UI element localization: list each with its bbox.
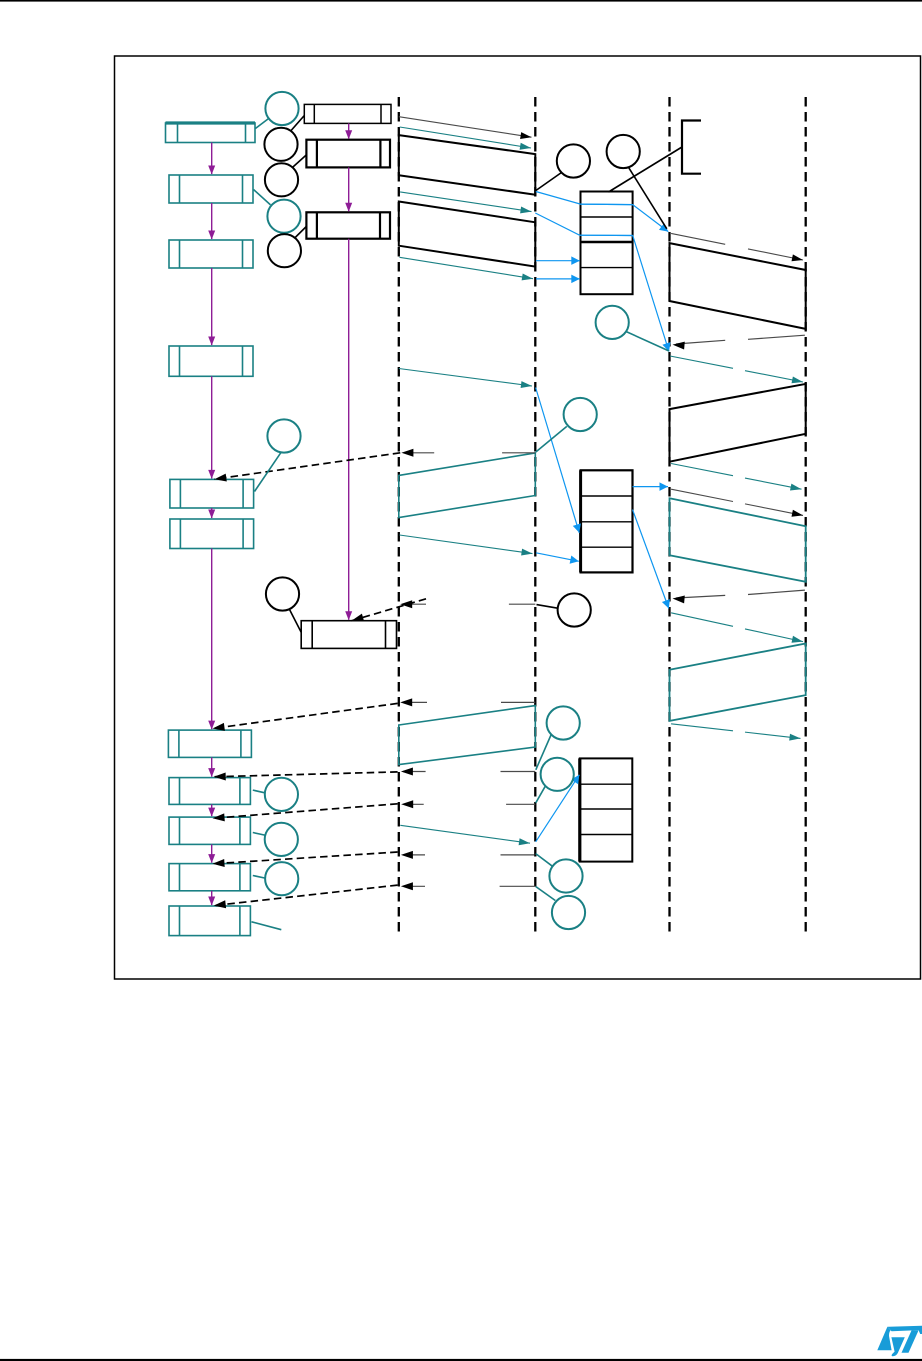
lifeline L1 xyxy=(398,97,400,936)
callout line c6 xyxy=(536,173,562,191)
thin teal arrow T11 L1-L2 xyxy=(400,825,530,843)
black box C xyxy=(306,212,390,238)
purple arrow teal-chain 3 xyxy=(211,268,213,345)
blue line across table1 row1 xyxy=(581,203,633,206)
teal box 2 xyxy=(169,175,253,203)
circle c8 xyxy=(596,306,629,339)
callout line c9b xyxy=(289,608,302,633)
black box B xyxy=(306,140,390,168)
callout line c5 xyxy=(294,226,307,239)
circle c5 xyxy=(268,234,301,267)
thin teal arrow T3 L1-L2 xyxy=(400,192,531,212)
blue arrow G L2-table3 xyxy=(536,775,580,842)
blue route A L2-table1-L3 xyxy=(536,192,669,232)
callout line c8 xyxy=(626,332,669,352)
teal band Bb L2-L1 xyxy=(399,706,536,765)
dashed arrow to box8 xyxy=(214,772,398,777)
teal box 3 xyxy=(169,240,253,268)
teal box 6 xyxy=(170,519,254,549)
thin black arrow T1 L1-L2 xyxy=(399,117,532,138)
circle c3 xyxy=(265,163,298,196)
return R0 L2-L1 y452 xyxy=(502,452,535,454)
black band B4 L4-L3 xyxy=(670,384,806,462)
lifeline L4 xyxy=(805,97,807,936)
callout line c15 xyxy=(253,790,265,793)
callout line c3 xyxy=(293,155,307,168)
dashed arrow to box D xyxy=(352,599,427,621)
thin teal arrow T9 L3-L4 xyxy=(671,613,733,627)
dashed arrow to box7 xyxy=(213,703,398,728)
return R5 L2-L1 y855 xyxy=(501,854,535,856)
purple arrow teal-chain 4 xyxy=(211,376,213,478)
queue table 3 xyxy=(580,758,633,861)
return RB2 L4-L3 y594 xyxy=(748,590,805,594)
teal box 10 xyxy=(169,864,250,891)
queue table 2 xyxy=(581,470,633,572)
circle c16 xyxy=(265,823,298,856)
circle c17 xyxy=(265,862,298,895)
teal band Ba L2-L1 xyxy=(399,453,536,518)
purple arrow black-chain 3 xyxy=(348,239,350,620)
teal box 9 xyxy=(169,817,250,844)
figure frame xyxy=(115,56,921,979)
return R1 L2-L1 y604 xyxy=(509,603,535,605)
thin teal arrow Tlow L1-L2 xyxy=(400,535,533,554)
return R6 L2-L1 y886 xyxy=(500,885,536,887)
blue arrow H table2-L3 xyxy=(633,486,669,488)
bracket callout line xyxy=(609,147,683,192)
circle c7 xyxy=(607,135,640,168)
circle c2 xyxy=(264,128,297,161)
black band B3 L3-L4 xyxy=(670,243,806,329)
callout line c11 xyxy=(536,735,551,770)
purple arrow teal-chain 7 xyxy=(211,757,213,776)
purple arrow black-chain 2 xyxy=(348,167,350,211)
teal box 4 xyxy=(169,346,253,376)
dashed arrow to box5 xyxy=(214,453,400,479)
return R3 L2-L1 y771 xyxy=(501,771,536,773)
thin teal arrow T6 L3-L4 xyxy=(670,356,733,368)
ST logo xyxy=(877,1326,922,1357)
purple arrow teal-chain 10 xyxy=(211,891,213,905)
black band B1 L1-L2 xyxy=(399,135,536,195)
circle c12 xyxy=(541,758,574,791)
blue arrow F L2-table2 xyxy=(536,553,579,562)
circle c14 xyxy=(552,896,585,929)
thin teal arrow T4 L1-L2 xyxy=(400,257,534,278)
dashed arrow to box10 xyxy=(213,852,398,864)
thin teal arrow T7 L3-L4 xyxy=(671,464,733,476)
circle c13 xyxy=(549,859,582,892)
teal box 1 xyxy=(166,123,256,143)
circle c15 xyxy=(265,778,298,811)
purple arrow teal-chain 9 xyxy=(211,844,213,862)
callout line c12 xyxy=(536,786,546,803)
callout line c14 xyxy=(536,887,556,901)
lifeline L3 xyxy=(668,97,670,936)
black box A xyxy=(304,104,391,123)
callout line c13 xyxy=(536,854,553,867)
teal band B6 L4-L3 xyxy=(670,644,806,721)
thin teal arrow T2 L1-L2 xyxy=(400,127,531,148)
footer rule xyxy=(0,1359,922,1361)
teal box 11 xyxy=(169,906,250,936)
blue line across table1 row2 xyxy=(580,234,633,236)
circle c9b xyxy=(266,577,299,610)
black band B2 L1-L2 xyxy=(399,202,536,267)
thin black arrow T5 L3-L4 xyxy=(671,233,725,244)
teal box 5 xyxy=(170,479,254,508)
bracket callout xyxy=(682,121,701,174)
purple arrow black-chain 1 xyxy=(348,123,350,138)
header rule xyxy=(0,0,922,2)
thin teal arrow Tmid L1-L2 xyxy=(399,369,532,387)
dashed arrow to box9 xyxy=(213,804,398,819)
blue route B L2-table1-L3 xyxy=(535,213,669,352)
queue table 1 xyxy=(581,192,633,295)
purple arrow teal-chain 6 xyxy=(211,549,213,730)
blue route E L2-table2 xyxy=(536,388,580,533)
callout line c10 xyxy=(537,605,558,609)
callout line c9 xyxy=(255,452,282,491)
circle c4 xyxy=(267,200,300,233)
thin teal arrow T10 L3-L4 xyxy=(671,724,733,731)
circle c10 xyxy=(558,593,591,626)
purple arrow teal-chain 8 xyxy=(211,804,213,816)
return R2 L2-L1 y702 xyxy=(501,701,535,703)
callout line c17 xyxy=(253,876,265,879)
dashed arrow to box11 xyxy=(214,885,398,906)
callout line c16 xyxy=(253,833,265,836)
thin black arrow T8 L3-L4 xyxy=(671,489,733,501)
blue arrow D into table1 xyxy=(536,278,580,280)
circle c1 xyxy=(265,92,298,125)
circle c6 xyxy=(557,144,590,177)
return R4 L2-L1 y804 xyxy=(506,803,535,805)
circle c9 xyxy=(267,419,300,452)
circle c8b xyxy=(564,398,597,431)
callout line c1 xyxy=(255,118,268,128)
teal band B5 L3-L4 xyxy=(670,498,806,582)
callout line c8b xyxy=(536,426,567,452)
blue arrow C into table1 xyxy=(536,260,580,262)
purple arrow teal-chain 2 xyxy=(211,203,213,239)
teal box 7 xyxy=(168,730,251,757)
callout line c4 xyxy=(254,190,271,205)
circle c11 xyxy=(547,706,580,739)
lifeline L2 xyxy=(534,97,536,936)
return RB1 L4-L3 y340 xyxy=(748,335,805,339)
callout line c7 xyxy=(629,167,667,229)
purple arrow teal-chain 5 xyxy=(211,508,213,518)
teal box 8 xyxy=(169,778,250,805)
purple arrow teal-chain 1 xyxy=(211,143,213,175)
black box D xyxy=(301,621,396,649)
blue route I table2-L3 xyxy=(633,510,669,609)
box11 stub line xyxy=(252,922,282,930)
callout line c2 xyxy=(291,116,304,131)
